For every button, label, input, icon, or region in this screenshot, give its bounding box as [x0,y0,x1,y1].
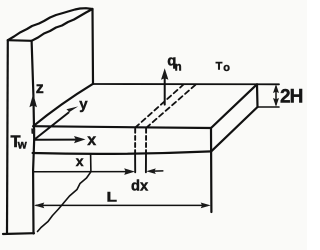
svg-text:x: x [87,132,96,149]
svg-text:2H: 2H [280,86,303,107]
svg-text:o: o [223,62,230,74]
svg-text:y: y [79,96,88,113]
svg-text:w: w [17,139,27,151]
svg-text:x: x [76,153,84,169]
svg-text:L: L [107,189,118,204]
svg-text:n: n [175,61,182,73]
svg-text:T: T [216,60,223,72]
svg-text:z: z [36,80,44,97]
svg-text:dx: dx [131,179,148,195]
